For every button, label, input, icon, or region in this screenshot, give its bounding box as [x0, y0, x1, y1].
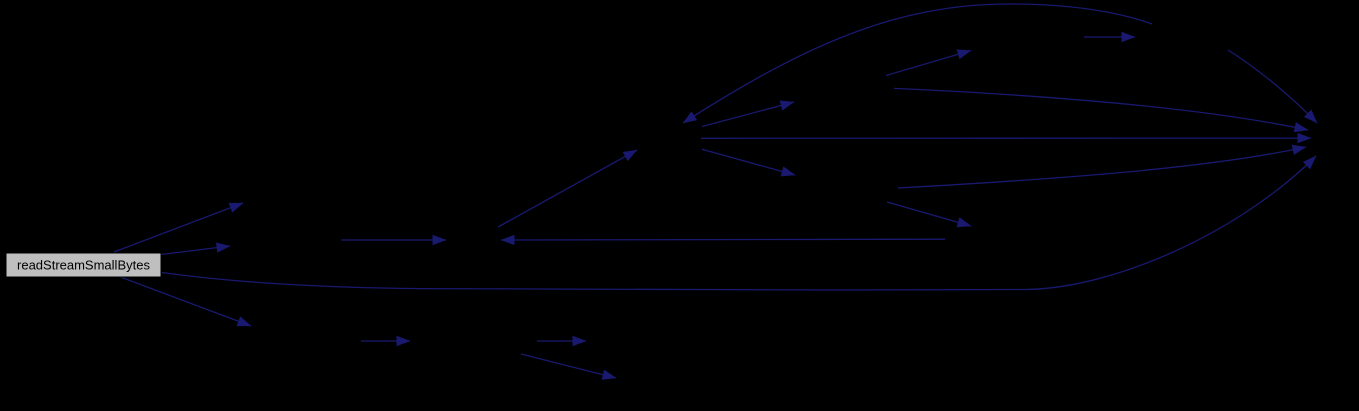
wire edge nE->n7 upper — [886, 51, 971, 76]
wire edge n4->n5 — [537, 340, 586, 342]
wire edge nH->hub top back curve — [683, 4, 1152, 123]
wire edge back nM->nC leftward — [501, 238, 945, 241]
svg-text:readStreamSmallBytes: readStreamSmallBytes — [17, 258, 150, 273]
wire edge hub->nE upper — [702, 102, 794, 127]
wire edge hub->nF lower — [702, 149, 795, 175]
wire edge hub->G horizontal — [701, 137, 1311, 139]
wire edge nE->G long — [894, 88, 1308, 130]
wire edge box->n1 upper — [114, 203, 243, 252]
wire edge box->n2 — [161, 246, 230, 255]
wire edge n2->nC — [341, 239, 446, 241]
wire edge box->n3 lower — [118, 276, 251, 326]
wire edge nF->nM diagonal — [887, 202, 971, 226]
wire edge box->G bottom long curve — [162, 156, 1316, 290]
wire edge nF->G long — [898, 147, 1306, 188]
wire edge nC->hub diagonal — [498, 150, 637, 227]
wire edge n8->nH small — [1084, 36, 1135, 38]
wire edge n4->n6 diagonal — [521, 354, 616, 378]
wire edge n3->n4 — [361, 340, 410, 342]
wire edge nH->G curve — [1228, 50, 1317, 123]
node readStreamSmallBytes — [6, 253, 161, 277]
